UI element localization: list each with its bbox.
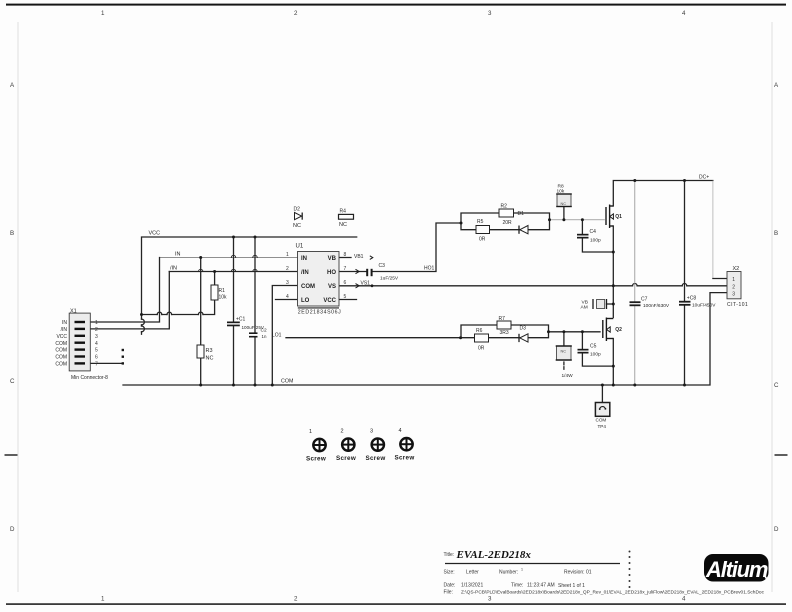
svg-text:Sheet 1 of 1: Sheet 1 of 1 xyxy=(558,583,585,589)
svg-text:Screw: Screw xyxy=(395,455,415,462)
svg-text:Min Connector-8: Min Connector-8 xyxy=(71,375,108,381)
svg-text:X1: X1 xyxy=(70,309,77,315)
svg-text:NC: NC xyxy=(561,350,567,354)
svg-text:2: 2 xyxy=(294,10,298,17)
svg-text:D2: D2 xyxy=(294,207,301,213)
svg-text:Time:: Time: xyxy=(511,583,523,589)
svg-text:1uF/25V: 1uF/25V xyxy=(380,276,399,282)
svg-text:TP4: TP4 xyxy=(598,424,607,429)
svg-text:C: C xyxy=(10,378,15,385)
svg-text:8: 8 xyxy=(344,252,347,258)
svg-text:100p: 100p xyxy=(590,352,601,358)
svg-text:5: 5 xyxy=(95,348,98,354)
svg-text:Q2: Q2 xyxy=(615,327,622,333)
svg-text:100nF/630V: 100nF/630V xyxy=(643,303,670,309)
svg-text:COM: COM xyxy=(301,284,315,290)
svg-text:R1: R1 xyxy=(219,288,226,294)
svg-text:D3: D3 xyxy=(520,326,527,332)
svg-text:R3: R3 xyxy=(206,348,213,354)
svg-text:100p: 100p xyxy=(590,238,601,244)
svg-text:20R: 20R xyxy=(503,220,513,226)
svg-text:HO1: HO1 xyxy=(424,265,435,271)
svg-text:2: 2 xyxy=(286,266,289,272)
svg-text:VCC: VCC xyxy=(56,334,67,340)
svg-text:Title:: Title: xyxy=(444,552,455,558)
svg-text:R6: R6 xyxy=(476,328,483,334)
svg-text:3R3: 3R3 xyxy=(500,330,509,336)
svg-text:COM: COM xyxy=(55,362,67,368)
svg-text:B: B xyxy=(774,230,778,237)
svg-text:D1: D1 xyxy=(518,211,525,217)
svg-text:10k: 10k xyxy=(219,295,228,301)
svg-text:D: D xyxy=(10,526,15,533)
svg-text:C5: C5 xyxy=(590,344,597,350)
svg-text:NC: NC xyxy=(561,202,567,206)
svg-text:Altium: Altium xyxy=(705,557,768,582)
svg-text:Screw: Screw xyxy=(366,455,386,462)
svg-text:4: 4 xyxy=(399,428,402,434)
svg-text:EVAL-2ED218x: EVAL-2ED218x xyxy=(456,549,532,561)
svg-text:DC+: DC+ xyxy=(699,175,709,181)
svg-text:NC: NC xyxy=(293,223,301,229)
svg-text:Z:\QS-PCB\PLD\EvalBoards\2ED21: Z:\QS-PCB\PLD\EvalBoards\2ED218x\Boards\… xyxy=(461,590,765,596)
svg-text:4: 4 xyxy=(95,341,98,347)
svg-text:11:23:47 AM: 11:23:47 AM xyxy=(527,583,555,589)
svg-text:C2: C2 xyxy=(261,328,267,334)
svg-text:5: 5 xyxy=(344,294,347,300)
svg-text:4: 4 xyxy=(682,10,686,17)
svg-text:C3: C3 xyxy=(379,263,386,269)
svg-text:A: A xyxy=(774,82,779,89)
svg-text:7: 7 xyxy=(95,362,98,368)
svg-text:VS: VS xyxy=(328,284,336,290)
svg-text:AM: AM xyxy=(581,305,588,311)
svg-text:LO1: LO1 xyxy=(272,332,282,338)
svg-text:COM: COM xyxy=(55,341,67,347)
svg-text:VCC: VCC xyxy=(149,231,161,237)
svg-text:1/13/2021: 1/13/2021 xyxy=(461,583,483,589)
svg-text:HO: HO xyxy=(327,270,336,276)
svg-text:Letter: Letter xyxy=(466,570,479,576)
svg-text:0R: 0R xyxy=(478,346,485,352)
svg-text:R5: R5 xyxy=(477,219,484,225)
svg-text:VCC: VCC xyxy=(323,298,336,304)
svg-text:4: 4 xyxy=(682,596,686,603)
svg-text:C: C xyxy=(774,382,779,389)
svg-text:C4: C4 xyxy=(590,229,597,235)
svg-text:3: 3 xyxy=(488,10,492,17)
svg-text:A: A xyxy=(10,82,15,89)
svg-text:Screw: Screw xyxy=(306,456,326,463)
svg-text:VS1: VS1 xyxy=(361,280,371,286)
svg-text:COM: COM xyxy=(281,379,293,385)
svg-text:1n: 1n xyxy=(262,334,267,339)
svg-text:1: 1 xyxy=(101,596,105,603)
svg-text:3: 3 xyxy=(95,334,98,340)
svg-text:NC: NC xyxy=(339,222,347,228)
svg-text:3: 3 xyxy=(488,596,492,603)
svg-text:+C8: +C8 xyxy=(687,296,697,302)
svg-text:2: 2 xyxy=(294,596,298,603)
svg-text:1: 1 xyxy=(101,10,105,17)
svg-text:1: 1 xyxy=(309,429,312,435)
svg-text:X2: X2 xyxy=(733,266,740,272)
svg-text:+C1: +C1 xyxy=(236,317,246,323)
svg-text:2ED21834S06J: 2ED21834S06J xyxy=(298,310,342,316)
svg-text:6: 6 xyxy=(344,280,347,286)
svg-text:2: 2 xyxy=(95,327,98,333)
svg-text:7: 7 xyxy=(344,266,347,272)
svg-text:CIT-101: CIT-101 xyxy=(727,302,748,308)
svg-text:1/4W: 1/4W xyxy=(562,373,574,379)
svg-text:COM: COM xyxy=(596,418,607,423)
svg-text:R4: R4 xyxy=(340,209,347,215)
svg-text:R7: R7 xyxy=(499,316,506,322)
svg-text:/IN: /IN xyxy=(301,270,309,276)
svg-text:IN: IN xyxy=(62,320,67,326)
svg-text:1: 1 xyxy=(732,277,735,283)
svg-text:Number:: Number: xyxy=(499,570,518,576)
svg-text:VB: VB xyxy=(328,256,337,262)
svg-text:Q1: Q1 xyxy=(615,214,622,220)
svg-text:10uF/450V: 10uF/450V xyxy=(692,303,716,309)
svg-text:0R: 0R xyxy=(479,237,486,243)
svg-text:Screw: Screw xyxy=(336,455,356,462)
svg-text:COM: COM xyxy=(55,355,67,361)
svg-text:NC: NC xyxy=(206,356,214,362)
svg-text:/IN: /IN xyxy=(61,327,68,333)
svg-text:6: 6 xyxy=(95,355,98,361)
svg-text:Date:: Date: xyxy=(444,583,456,589)
svg-text:U1: U1 xyxy=(296,244,304,250)
svg-text:B: B xyxy=(10,230,14,237)
svg-text:1: 1 xyxy=(95,320,98,326)
svg-text:File:: File: xyxy=(444,590,453,596)
svg-text:1: 1 xyxy=(521,568,523,572)
svg-text:Size:: Size: xyxy=(444,570,455,576)
svg-text:IN: IN xyxy=(301,256,307,262)
svg-text:2: 2 xyxy=(341,429,344,435)
svg-text:R2: R2 xyxy=(501,204,508,210)
svg-text:C7: C7 xyxy=(641,297,648,303)
svg-text:/IN: /IN xyxy=(170,266,177,272)
svg-text:3: 3 xyxy=(286,280,289,286)
svg-text:VB1: VB1 xyxy=(354,254,364,260)
svg-text:IN: IN xyxy=(175,252,181,258)
svg-text:LO: LO xyxy=(301,298,310,304)
svg-text:1: 1 xyxy=(286,252,289,258)
svg-text:D: D xyxy=(774,526,779,533)
svg-text:3: 3 xyxy=(732,291,735,297)
svg-text:4: 4 xyxy=(286,294,289,300)
svg-text:2: 2 xyxy=(732,284,735,290)
svg-text:COM: COM xyxy=(55,348,67,354)
svg-text:Revision: 01: Revision: 01 xyxy=(564,570,592,576)
svg-text:10k: 10k xyxy=(557,189,565,195)
svg-text:3: 3 xyxy=(370,429,373,435)
